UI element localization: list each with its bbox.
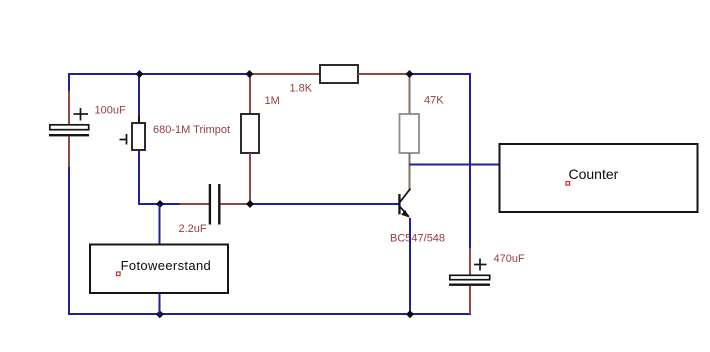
wire bottom rail — [68, 313, 471, 315]
resistor R4 47K body — [400, 114, 420, 153]
wire top rail left (V+ net) — [68, 73, 250, 75]
capacitor C3 470uF plate top — [450, 275, 490, 279]
wire trimpot top — [138, 74, 140, 117]
capacitor C3 pin top — [469, 248, 471, 275]
resistor R1 pin bottom — [249, 153, 251, 205]
component Counter origin marker — [566, 182, 570, 186]
capacitor C2 pin left — [180, 203, 209, 205]
transistor Q1 collector diagonal — [400, 189, 410, 202]
capacitor C2 2.2uF plate left — [209, 184, 211, 225]
svg-text:470uF: 470uF — [494, 253, 525, 265]
node junction top 47K — [406, 70, 414, 78]
wire emitter net — [409, 218, 411, 315]
wire fotoweerstand top pin — [159, 204, 161, 245]
capacitor C1 100uF plate top — [50, 125, 89, 130]
resistor R3 1.8K body — [320, 65, 358, 83]
capacitor C2 2.2uF plate right — [218, 184, 220, 225]
node junction mid fotoweerstand — [156, 200, 164, 208]
node junction top trimpot — [136, 70, 144, 78]
capacitor C1 100uF plate bottom — [49, 134, 89, 136]
svg-text:47K: 47K — [424, 95, 444, 107]
component Counter box — [500, 144, 698, 212]
wire right vertical to 470uF — [469, 73, 471, 249]
svg-text:Counter: Counter — [569, 166, 619, 182]
capacitor C2 pin right — [221, 203, 252, 205]
resistor R3 pin left — [249, 73, 320, 75]
component Fotoweerstand origin marker — [117, 272, 121, 276]
svg-text:1.8K: 1.8K — [290, 83, 313, 95]
transistor Q1 base bar — [398, 194, 400, 214]
capacitor C3 470uF plate bottom — [449, 284, 490, 286]
resistor R4 pin bottom / transistor collector lead — [409, 153, 411, 190]
transistor Q1 emitter diagonal — [400, 207, 409, 217]
node junction bottom emitter — [406, 310, 414, 318]
wire top rail right — [409, 73, 471, 75]
capacitor C1 pin top — [68, 91, 70, 125]
capacitor C3 pin bottom — [469, 286, 471, 314]
resistor R4 pin top — [409, 74, 411, 115]
svg-text:2.2uF: 2.2uF — [179, 223, 207, 235]
capacitor C1 plus sign — [74, 108, 89, 121]
wire left rail upper — [68, 73, 70, 92]
node junction top 1M — [246, 70, 254, 78]
wire counter net — [409, 164, 500, 166]
wire left rail lower — [68, 167, 70, 315]
svg-text:BC547/548: BC547/548 — [390, 232, 445, 244]
wire fotoweerstand bottom pin — [159, 293, 161, 315]
trimpot R2 pin top — [138, 116, 140, 123]
resistor R1 1M body — [241, 114, 259, 153]
wire mid horizontal left — [138, 203, 181, 205]
capacitor C3 plus sign — [474, 259, 487, 271]
trimpot R2 wiper arrow — [120, 134, 127, 145]
svg-text:680-1M Trimpot: 680-1M Trimpot — [153, 124, 230, 136]
transistor Q1 emitter arrow — [401, 210, 410, 218]
resistor R1 pin top — [249, 73, 251, 115]
svg-text:100uF: 100uF — [95, 105, 126, 117]
svg-text:Fotoweerstand: Fotoweerstand — [121, 258, 212, 273]
component Fotoweerstand box — [90, 245, 228, 294]
trimpot R2 680-1M body — [132, 123, 145, 150]
svg-text:1M: 1M — [265, 95, 280, 107]
capacitor C1 pin bottom — [68, 136, 70, 168]
wire trimpot bottom vertical — [138, 150, 140, 205]
wire base net — [250, 203, 399, 205]
node junction bottom fotoweerstand — [156, 310, 164, 318]
node junction mid base — [246, 200, 254, 208]
resistor R3 pin right — [358, 73, 410, 75]
